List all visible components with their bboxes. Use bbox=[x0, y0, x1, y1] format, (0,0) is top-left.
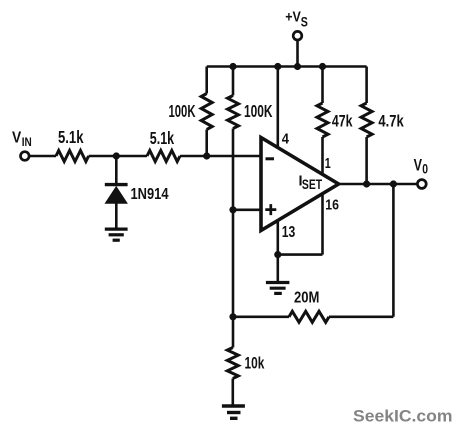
op-amp minus input symbol bbox=[266, 157, 275, 160]
resistor 10k bbox=[227, 348, 238, 379]
svg-text:5.1k: 5.1k bbox=[150, 128, 174, 148]
junction dot non-inverting node bbox=[229, 206, 236, 213]
diode D1 1N914 cathode bar bbox=[105, 183, 128, 186]
wire pin 4 from rail to op-amp top edge bbox=[276, 67, 279, 149]
svg-text:20M: 20M bbox=[294, 290, 319, 307]
svg-text:+V: +V bbox=[285, 9, 301, 25]
ground symbol (bottom, under 10k) bbox=[222, 406, 245, 418]
node V0 output terminal bbox=[417, 180, 426, 189]
svg-text:47k: 47k bbox=[332, 112, 353, 130]
wire pin 13 node to pin 16 bbox=[278, 253, 323, 256]
junction dot 4.7k/output bbox=[363, 180, 370, 187]
junction dot 100K#1 / inverting line bbox=[203, 152, 210, 159]
node VIN input terminal bbox=[21, 152, 30, 161]
svg-text:V: V bbox=[414, 157, 423, 175]
svg-text:1: 1 bbox=[325, 155, 331, 172]
node +VS terminal bbox=[293, 31, 302, 40]
junction dot rail/100K#2 bbox=[229, 63, 236, 70]
junction dot pin13 node bbox=[274, 251, 281, 258]
wire diode anode to ground bbox=[115, 203, 118, 228]
wire 47k bottom to pin 1 on op-amp upper edge bbox=[321, 137, 324, 175]
wire feedback line right part bbox=[329, 315, 393, 318]
junction dot rail/47k bbox=[319, 63, 326, 70]
op-amp plus input symbol bbox=[265, 204, 276, 215]
svg-text:10k: 10k bbox=[245, 354, 265, 372]
svg-text:1N914: 1N914 bbox=[131, 186, 169, 203]
wire top supply rail bbox=[207, 65, 367, 68]
svg-text:5.1k: 5.1k bbox=[58, 127, 84, 147]
wire 5.1k#1 to 5.1k#2 through diode node bbox=[89, 155, 147, 158]
junction dot rail/pin4 bbox=[274, 63, 281, 70]
wire feedback line left part bbox=[233, 315, 289, 318]
resistor 5.1k (input, left) bbox=[56, 151, 89, 162]
wire 5.1k#2 to op-amp inverting input bbox=[180, 155, 261, 158]
svg-text:SET: SET bbox=[302, 177, 323, 192]
svg-text:S: S bbox=[301, 13, 308, 29]
svg-text:4: 4 bbox=[282, 130, 290, 147]
ground symbol (pins 13/16) bbox=[266, 283, 290, 294]
wire 100K#1 bottom to inverting input line bbox=[205, 130, 208, 157]
wire diode branch down from input node bbox=[115, 156, 118, 183]
resistor 100K (second) bbox=[228, 96, 239, 129]
wire 100K#2 bottom down through + node to feedback node bbox=[232, 129, 235, 348]
wire VIN terminal to R 5.1k#1 bbox=[29, 155, 56, 158]
ground symbol (under diode) bbox=[105, 229, 128, 240]
junction dot feedback/left column bbox=[229, 313, 236, 320]
resistor 5.1k (second) bbox=[147, 151, 180, 162]
resistor 20M feedback bbox=[289, 311, 329, 322]
op-amp U1 triangle bbox=[261, 138, 339, 231]
diode D1 1N914 arrow (anode triangle) bbox=[105, 187, 127, 204]
svg-text:0: 0 bbox=[422, 162, 428, 177]
wire pin 13 node to ground bbox=[276, 255, 279, 282]
svg-text:V: V bbox=[12, 129, 21, 146]
wire 10k bottom to ground bbox=[232, 379, 235, 405]
wire pin 16 from op-amp lower edge down bbox=[321, 194, 324, 255]
wire pin 13 from op-amp bottom edge down bbox=[276, 220, 279, 254]
svg-text:IN: IN bbox=[22, 137, 32, 149]
wire non-inverting input stub bbox=[233, 209, 261, 212]
wire op-amp output to V0 terminal bbox=[339, 183, 418, 186]
resistor 47k bbox=[317, 103, 328, 137]
wire rail to 47k bbox=[321, 67, 324, 104]
wire rail to 100K#1 bbox=[205, 67, 208, 94]
resistor 4.7k bbox=[361, 103, 372, 137]
wire rail to 100K#2 bbox=[232, 67, 235, 96]
svg-text:13: 13 bbox=[282, 224, 296, 241]
svg-text:16: 16 bbox=[325, 196, 339, 213]
svg-text:100K: 100K bbox=[244, 101, 273, 121]
wire +VS terminal lead bbox=[296, 40, 299, 67]
junction dot rail/+VS bbox=[294, 63, 301, 70]
resistor 100K (left) bbox=[201, 94, 212, 130]
svg-text:100K: 100K bbox=[169, 101, 196, 121]
svg-text:SeekIC.com: SeekIC.com bbox=[353, 406, 453, 425]
wire rail to 4.7k bbox=[365, 67, 368, 104]
wire output down to feedback line bbox=[392, 184, 395, 317]
junction dot feedback/output bbox=[390, 180, 397, 187]
wire 4.7k bottom to output line bbox=[365, 137, 368, 184]
svg-text:4.7k: 4.7k bbox=[378, 112, 404, 130]
junction dot input/diode node bbox=[113, 152, 120, 159]
